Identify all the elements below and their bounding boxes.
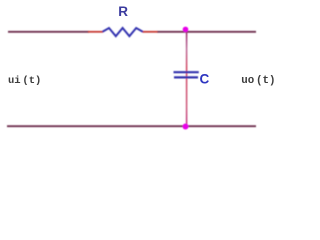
svg-text:C: C [200, 72, 210, 87]
svg-text:(t): (t) [256, 75, 275, 87]
svg-text:(t): (t) [22, 75, 41, 87]
svg-text:uo: uo [241, 75, 254, 87]
svg-text:ui: ui [8, 75, 21, 87]
svg-text:R: R [118, 4, 128, 19]
